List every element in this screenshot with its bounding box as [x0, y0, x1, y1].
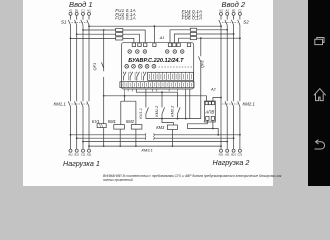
bus line 1	[71, 134, 240, 136]
wire block to FU6	[179, 38, 191, 43]
svg-text:АПВ: АПВ	[204, 110, 214, 115]
block top terminals right group	[168, 43, 171, 47]
block internal contacts	[123, 72, 146, 81]
junction dot collector tap	[124, 95, 126, 97]
bus junction dots	[70, 134, 241, 147]
home icon	[314, 89, 326, 101]
svg-text:С11: С11	[81, 153, 86, 157]
fuse labels FU4 FU5 FU6	[182, 9, 203, 20]
svg-text:А21: А21	[224, 153, 230, 157]
wire FU6 to С2	[197, 37, 240, 39]
svg-text:КМ3.1: КМ3.1	[142, 148, 153, 153]
svg-text:КМ1: КМ1	[108, 119, 116, 124]
terminal circles Нагрузка 2	[220, 149, 223, 152]
wire block drop A	[185, 89, 187, 119]
svg-text:КМ1.2: КМ1.2	[154, 105, 159, 117]
svg-text:КМ1.1: КМ1.1	[54, 101, 67, 106]
svg-text:QF2: QF2	[200, 59, 205, 68]
contactor КМ2.1 contacts	[225, 101, 240, 106]
back icon	[315, 142, 325, 149]
svg-text:А2: А2	[210, 87, 217, 91]
svg-text:Ввод 1: Ввод 1	[69, 0, 93, 9]
svg-text:Ввод 2: Ввод 2	[222, 0, 246, 9]
svg-text:N2: N2	[219, 8, 223, 12]
junction dot collector left	[103, 95, 105, 97]
junction dot N2 aux	[220, 97, 222, 99]
svg-text:А1: А1	[68, 8, 73, 12]
contact КМ2.2	[178, 92, 181, 118]
junction dot H1 N1	[88, 25, 90, 27]
block contact cell separators	[128, 72, 141, 80]
wire АПВ bottom left	[188, 120, 219, 134]
wire column А2	[226, 15, 228, 149]
АПВ top terminals	[205, 102, 208, 105]
contactor КМ1.1 dashed link	[72, 103, 88, 105]
relay КМ1 coil	[114, 125, 125, 130]
fuse FU6	[190, 37, 196, 40]
android navigation bar	[308, 0, 330, 186]
block terminal strip	[148, 72, 194, 80]
svg-text:С21: С21	[238, 153, 243, 157]
wire В1 to FU2	[77, 33, 116, 35]
svg-text:В1: В1	[75, 8, 79, 12]
svg-text:КМ3: КМ3	[156, 125, 165, 130]
wire column В2	[233, 15, 235, 149]
wire column С1	[82, 15, 84, 149]
wire А1 aux drop	[153, 26, 155, 43]
white schematic page	[23, 0, 273, 186]
svg-text:FU3 0,1А: FU3 0,1А	[115, 15, 136, 20]
bus H1	[89, 25, 221, 27]
breaker QF2 wire	[200, 38, 202, 118]
wire column А1	[70, 15, 72, 149]
relay KV1 coil	[97, 124, 106, 128]
bus line 2	[77, 137, 234, 139]
junction dot H1 А1 aux	[154, 25, 156, 27]
svg-text:N1: N1	[87, 8, 91, 12]
wire column В1	[76, 15, 78, 149]
wire L_a link	[136, 89, 177, 92]
junction dot H1 N2	[220, 25, 222, 27]
svg-text:полных применений.: полных применений.	[103, 178, 133, 182]
block dashed separator	[159, 66, 193, 68]
svg-text:Нагрузка 1: Нагрузка 1	[63, 159, 100, 168]
junction dot L_a	[161, 91, 163, 93]
svg-text:КМ2.2: КМ2.2	[170, 105, 175, 117]
wire FU5 to В2	[197, 33, 234, 35]
junction dot QF1 top	[103, 29, 105, 31]
wire А1 to FU3	[71, 37, 116, 39]
breaker QF1 contact	[101, 62, 103, 68]
fuse FU3	[116, 37, 123, 40]
wire block to FU5	[174, 34, 190, 43]
wire FU2 to block	[123, 34, 140, 43]
block bottom terminal row	[120, 82, 194, 88]
wire column С2	[239, 15, 241, 149]
svg-text:В2: В2	[232, 8, 236, 12]
relay КМ2 coil	[131, 125, 142, 130]
wire control link	[146, 118, 201, 120]
block top terminal far right	[187, 43, 190, 47]
contact КМ3.1 upper	[145, 133, 154, 137]
bus line 3	[83, 141, 227, 143]
block АПВ outline	[205, 101, 216, 122]
wire block to FU4	[170, 30, 190, 43]
node labels А11 В11 С11 N11	[67, 153, 92, 157]
node labels N21 А21 В21 С21	[219, 153, 243, 157]
contactor КМ2.1 dashed link	[222, 103, 238, 105]
terminal circles Ввод 2	[220, 12, 223, 15]
wire FU4 to А2	[197, 29, 228, 31]
wire collector below block	[104, 96, 207, 102]
svg-text:А1: А1	[159, 36, 165, 40]
wire FU3 to block	[123, 38, 134, 42]
АПВ bottom terminals	[206, 116, 209, 120]
fuse labels FU1 FU2 FU3	[115, 8, 136, 20]
junction dots fuse taps right	[226, 29, 241, 39]
svg-text:С1: С1	[81, 8, 85, 12]
bus line 4	[89, 145, 221, 147]
wire АПВ bottom right	[212, 120, 214, 128]
terminal circles Ввод 1	[69, 12, 72, 15]
contact KV1.1	[146, 89, 149, 119]
svg-text:С2: С2	[238, 8, 242, 12]
block БУАВР outline	[122, 43, 194, 89]
node labels N2 А2 В2 С2	[219, 8, 242, 12]
svg-text:БУАВР.С.220.12/24.Т: БУАВР.С.220.12/24.Т	[128, 58, 184, 64]
junction dot QF2 top	[200, 37, 202, 39]
wire block stub drops	[125, 89, 178, 96]
wire АПВ right feed	[213, 98, 221, 102]
block top terminal center	[153, 43, 156, 47]
svg-text:КМ2: КМ2	[126, 119, 135, 124]
contactor КМ1.1 contacts	[68, 101, 89, 106]
svg-text:N11: N11	[87, 153, 92, 157]
block indicator circles top left	[128, 50, 147, 54]
svg-text:В21: В21	[231, 153, 236, 157]
recent apps icon	[315, 38, 324, 45]
fuse FU5	[190, 32, 196, 35]
svg-text:В11: В11	[74, 153, 79, 157]
contact КМ1.2	[162, 92, 165, 118]
wire KV1 feeds	[103, 96, 105, 146]
svg-text:KV1: KV1	[92, 119, 100, 124]
svg-text:S2: S2	[243, 19, 249, 24]
wire КМ1 coil bottom	[119, 129, 121, 146]
block top terminals left group	[132, 43, 135, 47]
wire КМ2 coil bottom	[135, 129, 137, 146]
block indicator circles top right	[165, 50, 184, 54]
switch S2 contacts	[219, 20, 240, 25]
terminal circles Нагрузка 1	[69, 149, 72, 152]
node labels А1 В1 С1 N1	[68, 8, 91, 12]
wire FU1 to block	[123, 30, 145, 43]
switch S2 dashed link	[222, 22, 238, 24]
svg-text:S1: S1	[61, 19, 67, 24]
fuse FU4	[190, 28, 196, 31]
fuse FU1	[116, 28, 123, 31]
breaker QF2 contact	[199, 56, 201, 62]
svg-text:А11: А11	[67, 153, 73, 157]
fuse FU2	[116, 33, 123, 36]
wire КМ3 coil feed	[162, 89, 190, 146]
junction dot АПВ bus	[217, 134, 219, 136]
svg-text:FU6 0,1А: FU6 0,1А	[182, 16, 203, 21]
viewer gray background	[0, 0, 330, 186]
svg-text:КМ2.1: КМ2.1	[243, 101, 256, 106]
breaker QF1 wire	[103, 30, 105, 95]
wire column N2	[220, 15, 222, 149]
junction dot drop A	[185, 118, 187, 120]
svg-text:QF1: QF1	[92, 63, 97, 71]
wire КМ2 coil feed top	[135, 101, 137, 124]
svg-text:N21: N21	[219, 153, 224, 157]
switch S1 contacts	[68, 20, 89, 25]
block middle circles row	[125, 64, 156, 68]
svg-text:KV1.1: KV1.1	[138, 108, 143, 119]
switch S1 dashed link	[72, 22, 88, 24]
svg-text:А2: А2	[225, 8, 230, 12]
svg-text:Нагрузка 2: Нагрузка 2	[213, 158, 250, 167]
wire С1 to FU1	[83, 29, 116, 31]
wire coil feed frame	[121, 96, 136, 125]
junction dots fuse taps left	[70, 29, 84, 39]
junction dots control link	[161, 118, 178, 120]
relay КМ3 coil	[167, 125, 177, 130]
wire column N1	[88, 15, 90, 149]
contact КМ3.1 lower	[145, 136, 154, 140]
